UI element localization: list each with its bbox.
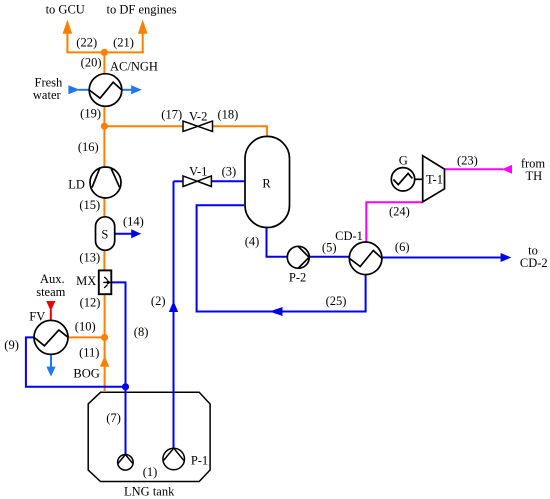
svg-text:S: S bbox=[101, 227, 108, 241]
svg-text:(21): (21) bbox=[113, 35, 134, 49]
wire orange stem to GCU bbox=[66, 34, 68, 53]
svg-text:(10): (10) bbox=[75, 320, 96, 334]
svg-text:steam: steam bbox=[36, 285, 65, 299]
svg-text:V-1: V-1 bbox=[189, 164, 207, 178]
svg-text:(2): (2) bbox=[151, 294, 166, 308]
junction dot 9/8/7 bbox=[122, 383, 129, 390]
svg-text:P-2: P-2 bbox=[289, 271, 306, 285]
wire FV outlet bbox=[50, 355, 52, 368]
svg-text:(16): (16) bbox=[78, 140, 99, 154]
svg-text:LNG tank: LNG tank bbox=[124, 485, 175, 499]
heat exchanger FV bbox=[34, 320, 68, 354]
wire 20 bbox=[103, 52, 105, 74]
svg-text:BOG: BOG bbox=[73, 367, 99, 381]
wire 17 bbox=[104, 125, 183, 127]
svg-text:(20): (20) bbox=[81, 56, 102, 70]
arrow BOG 11 up bbox=[100, 356, 109, 367]
svg-text:(13): (13) bbox=[79, 250, 100, 264]
wire 16 bbox=[103, 126, 105, 167]
svg-text:(3): (3) bbox=[222, 165, 237, 179]
wire 8 bbox=[111, 282, 125, 386]
svg-text:(23): (23) bbox=[457, 153, 478, 167]
wire 4 bbox=[267, 227, 289, 257]
svg-text:(18): (18) bbox=[217, 107, 238, 121]
svg-text:MX: MX bbox=[76, 274, 96, 288]
generator G bbox=[391, 168, 414, 191]
svg-text:V-2: V-2 bbox=[189, 109, 207, 123]
svg-text:(9): (9) bbox=[4, 338, 19, 352]
svg-text:water: water bbox=[33, 88, 62, 102]
arrow 14 bbox=[131, 229, 141, 238]
svg-text:(11): (11) bbox=[79, 346, 99, 360]
svg-text:(15): (15) bbox=[79, 198, 100, 212]
wire 9 bbox=[26, 337, 126, 386]
turbine T-1 bbox=[423, 156, 445, 202]
svg-text:(1): (1) bbox=[143, 465, 158, 479]
svg-text:(24): (24) bbox=[389, 204, 410, 218]
pump P-1 bbox=[163, 448, 185, 470]
wire 3 left of V-1 bbox=[174, 180, 184, 182]
arrow FV outlet down bbox=[46, 367, 55, 377]
wire 13 bbox=[103, 250, 105, 271]
wire aux steam bbox=[50, 310, 52, 321]
valve V-2 bbox=[183, 121, 213, 131]
wire 5 bbox=[309, 256, 350, 258]
valve V-1 bbox=[183, 176, 211, 187]
wire 2 bbox=[173, 181, 175, 449]
svg-text:(8): (8) bbox=[134, 325, 149, 339]
arrow 23 bbox=[502, 165, 512, 174]
svg-text:(22): (22) bbox=[76, 35, 97, 49]
LNG tank bbox=[88, 392, 210, 481]
svg-text:(17): (17) bbox=[161, 107, 182, 121]
svg-text:to DF engines: to DF engines bbox=[107, 3, 177, 17]
arrow to DF engines bbox=[138, 20, 148, 34]
wire 15 bbox=[103, 198, 105, 218]
wire 6 bbox=[382, 257, 501, 259]
svg-text:(12): (12) bbox=[80, 296, 101, 310]
svg-text:(7): (7) bbox=[106, 411, 121, 425]
wire 12 / 11 BOG bbox=[104, 294, 106, 392]
arrow aux steam red bbox=[46, 301, 55, 311]
wire 7 bbox=[125, 387, 127, 455]
arrow 25 left bbox=[269, 307, 282, 316]
svg-text:(4): (4) bbox=[245, 235, 260, 249]
arrow 2 up bbox=[169, 301, 178, 312]
svg-text:G: G bbox=[399, 154, 408, 168]
junction dot 19 bbox=[101, 123, 108, 130]
svg-text:FV: FV bbox=[29, 310, 45, 324]
svg-text:(19): (19) bbox=[80, 106, 101, 120]
svg-text:LD: LD bbox=[68, 178, 85, 192]
svg-text:to GCU: to GCU bbox=[46, 3, 85, 17]
condenser CD-1 bbox=[349, 242, 382, 275]
svg-text:R: R bbox=[262, 177, 271, 191]
mixer MX arrow bbox=[103, 277, 107, 288]
wire 18 bbox=[213, 126, 267, 137]
arrow to GCU bbox=[63, 20, 73, 34]
wire fresh water out bbox=[122, 89, 132, 91]
svg-text:AC/NGH: AC/NGH bbox=[110, 60, 158, 74]
svg-text:(6): (6) bbox=[395, 240, 410, 254]
wire orange stem to DF engines bbox=[142, 34, 144, 53]
wire 24 bbox=[366, 202, 422, 242]
column R bbox=[245, 136, 290, 227]
wire 14 bbox=[115, 233, 132, 235]
arrow 6 bbox=[501, 253, 512, 262]
svg-text:P-1: P-1 bbox=[191, 454, 208, 468]
wire 23 bbox=[445, 168, 504, 170]
wire 10 bbox=[68, 336, 104, 338]
heat exchanger AC/NGH bbox=[89, 74, 122, 107]
wire top header (21)(22) bbox=[66, 51, 143, 53]
compressor LD bbox=[90, 167, 121, 198]
svg-text:(25): (25) bbox=[326, 294, 347, 308]
svg-text:CD-2: CD-2 bbox=[520, 256, 548, 270]
pump P-2 bbox=[287, 246, 309, 268]
junction dot 20 bbox=[101, 49, 108, 56]
arrow fresh water in bbox=[68, 85, 79, 94]
svg-text:TH: TH bbox=[525, 169, 542, 183]
svg-text:T-1: T-1 bbox=[426, 173, 443, 187]
wire 25 bbox=[197, 205, 366, 311]
shaft G to T-1 bbox=[415, 178, 424, 180]
wire 19 bbox=[103, 106, 105, 126]
mixer MX bbox=[99, 270, 112, 294]
svg-text:(14): (14) bbox=[123, 215, 144, 229]
separator S bbox=[96, 217, 115, 251]
wire 3 right of V-1 bbox=[211, 180, 245, 182]
wire fresh water in bbox=[79, 89, 90, 91]
svg-text:CD-1: CD-1 bbox=[335, 229, 363, 243]
arrow fresh water out bbox=[131, 85, 142, 94]
junction dot 10 bbox=[101, 334, 108, 341]
pump 7 in tank bbox=[118, 455, 134, 471]
